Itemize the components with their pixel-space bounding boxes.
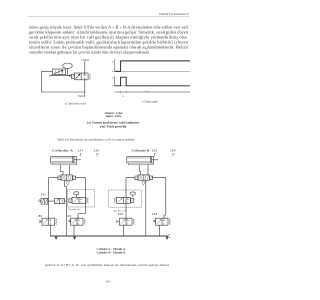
wire output zero reference line bbox=[115, 85, 190, 87]
cylinder A rod bbox=[74, 159, 81, 161]
wire pilot line from flow control to main valve bbox=[50, 75, 71, 77]
svg-text:Cylinder A: Cylinder A bbox=[52, 149, 74, 153]
valve DCV-B parallel arrows right cell bbox=[145, 176, 148, 179]
wire input zero reference line bbox=[115, 70, 190, 72]
cylinder A body bbox=[51, 157, 77, 163]
valve BV spring bbox=[56, 219, 57, 225]
arrow inside left cell bbox=[76, 74, 80, 79]
junction dots on manifold bbox=[66, 236, 67, 237]
wire LV1 to W1 bbox=[47, 200, 50, 202]
valve LV2 body bbox=[71, 218, 84, 225]
valve LV3 body bbox=[120, 218, 133, 225]
valve delay-A pilot left bbox=[69, 199, 72, 203]
valve LV2 roller bbox=[69, 220, 71, 222]
dashed enclosure time delay valve A bbox=[68, 190, 95, 207]
wire supply stub valve A bbox=[65, 180, 67, 186]
cylinder B rod bbox=[152, 159, 158, 161]
supply source triangle 3 bbox=[165, 237, 168, 240]
wire W1b left pilot line of valve B bbox=[126, 178, 135, 219]
valve LV3 spring bbox=[133, 219, 134, 225]
wire W1 left pilot line of valve A bbox=[49, 178, 58, 219]
valve DCV-A parallel arrows right cell bbox=[68, 176, 71, 179]
wire LV3 drain to manifold bbox=[123, 225, 125, 236]
figure 6.11 caption block bbox=[45, 247, 169, 267]
cylinder A base line bbox=[52, 164, 77, 166]
wire reservoir stem bbox=[67, 68, 69, 75]
wire LV2 drain to manifold bbox=[73, 225, 75, 236]
wire LV4 drain to manifold bbox=[159, 225, 161, 236]
wire cylinder B rod-end port to valve B bbox=[147, 165, 148, 175]
cylinder B base line bbox=[128, 164, 153, 166]
wire output signal pulse trace bbox=[115, 77, 190, 86]
svg-text:enine geniş sinyale hazır. Şek: enine geniş sinyale hazır. Şekil 6.9'da … bbox=[29, 26, 189, 30]
valve DCV-B left pilot bbox=[135, 176, 138, 179]
svg-text:Output: Output bbox=[82, 58, 90, 61]
svg-text:t₁: t₁ bbox=[123, 94, 125, 97]
svg-text:LV2: LV2 bbox=[94, 149, 100, 152]
exhaust T inside right cell bbox=[84, 73, 86, 75]
wire input signal trace bbox=[115, 61, 190, 72]
valve BV pushbutton bbox=[39, 220, 42, 223]
valve MV flow-control body bbox=[55, 199, 65, 204]
valve delay-B spring left bbox=[114, 198, 115, 203]
valve DCV-A left pilot bbox=[58, 176, 61, 179]
valve LV4 body bbox=[156, 218, 169, 225]
node LV4 position tick bbox=[173, 154, 174, 157]
wire left port of flow control bbox=[42, 71, 53, 73]
valve delay-A spring right bbox=[87, 198, 88, 203]
svg-text:1: 1 bbox=[112, 61, 114, 64]
wire loop bottom horizontal bbox=[42, 91, 85, 93]
wire loop left vertical bbox=[41, 72, 43, 92]
wire W2 supply line A down to manifold bbox=[66, 187, 68, 237]
valve DCV-A right pilot bbox=[72, 176, 75, 179]
node LV2 position tick bbox=[97, 154, 98, 157]
supply source triangle 2 bbox=[73, 237, 76, 240]
svg-text:LV1: LV1 bbox=[41, 193, 47, 196]
wire cylinder A rod-end port to valve A bbox=[69, 165, 71, 175]
svg-text:Time delay valve: Time delay valve bbox=[68, 209, 81, 211]
pilot box left of main valve bbox=[71, 74, 74, 78]
node input axis bbox=[114, 59, 116, 71]
svg-text:LV3: LV3 bbox=[152, 149, 158, 152]
cylinder B body bbox=[127, 157, 154, 163]
svg-text:LV3: LV3 bbox=[118, 213, 124, 216]
node manifold arrow end bbox=[167, 234, 171, 237]
valve delay-B pilot right bbox=[131, 199, 134, 203]
svg-text:a) Time delay valve: a) Time delay valve bbox=[65, 103, 87, 106]
svg-text:sinyallerin sırası ile çevrim: sinyallerin sırası ile çevrim başlatılma… bbox=[29, 46, 188, 50]
capacitor-like air reservoir (oval) bbox=[63, 63, 73, 68]
valve LV4 spring bbox=[169, 219, 170, 225]
svg-text:b) Time graph: b) Time graph bbox=[142, 101, 158, 104]
svg-text:sinyaller sıradan gelmişse bir: sinyaller sıradan gelmişse bir çevrim iç… bbox=[29, 51, 150, 55]
wire output line top bbox=[84, 61, 86, 73]
svg-text:101: 101 bbox=[106, 280, 112, 284]
cylinder A piston bbox=[72, 157, 74, 163]
svg-text:LV2: LV2 bbox=[66, 215, 72, 218]
valve DCV-A crossed arrows left cell bbox=[62, 176, 65, 179]
op valve U1 3/2 main valve body bbox=[74, 73, 88, 80]
svg-text:(b) Valf profili: (b) Valf profili bbox=[100, 124, 126, 128]
node LV3 position tick bbox=[155, 154, 156, 157]
caption block under figure 6.9 bbox=[57, 111, 139, 141]
svg-text:Cylinder B: Cylinder B bbox=[132, 149, 150, 153]
wire W3b right pilot line of valve B bbox=[153, 178, 166, 219]
wire output line through valve to bottom node bbox=[84, 80, 86, 93]
valve DCV-A exhaust triangle bbox=[66, 182, 69, 186]
svg-text:Şekil 6.9 Pnömatik veri gecikt: Şekil 6.9 Pnömatik veri geciktirme valfi… bbox=[57, 138, 134, 142]
node LV1 position tick bbox=[81, 154, 82, 157]
supply source triangle 1 bbox=[55, 237, 58, 240]
wire cylinder B cap-end port to valve B bbox=[139, 165, 141, 175]
wire cylinder A cap-end port to valve A bbox=[60, 165, 63, 175]
reservoir oval B bbox=[130, 192, 135, 195]
valve LV2 spring bbox=[84, 219, 85, 225]
valve BV start valve body bbox=[42, 218, 55, 225]
svg-text:Cylinder B - Silindir B: Cylinder B - Silindir B bbox=[96, 251, 125, 255]
wire W3 right pilot line of valve A bbox=[76, 178, 86, 219]
wire supply line B down to manifold bbox=[145, 180, 147, 236]
reservoir oval A bbox=[74, 192, 79, 195]
svg-text:t —: t — bbox=[146, 89, 150, 92]
valve LV4 roller bbox=[154, 220, 156, 222]
svg-text:LV1: LV1 bbox=[78, 149, 84, 152]
flow control valve (throttle + check) bbox=[52, 69, 65, 75]
svg-text:Endüstriyel Akışkanlar 6: Endüstriyel Akışkanlar 6 bbox=[158, 12, 189, 16]
spring right of main valve bbox=[89, 74, 90, 79]
valve LV1 limit valve body bbox=[41, 198, 48, 204]
valve DCV-A 5/2 body bbox=[61, 175, 72, 180]
svg-text:Input: Input bbox=[78, 95, 84, 98]
svg-text:Input - Giriş: Input - Giriş bbox=[106, 114, 122, 118]
wire input stub below loop bbox=[84, 92, 86, 97]
wire BV drain to manifold bbox=[50, 225, 52, 236]
valve LV1 roller bbox=[39, 200, 41, 202]
svg-text:sıralı şekillerinin ayrı olan: sıralı şekillerinin ayrı olan bir valf g… bbox=[29, 36, 188, 40]
valve DCV-B 5/2 body bbox=[138, 175, 150, 180]
header rule bbox=[28, 16, 190, 18]
cylinder B piston bbox=[149, 157, 151, 163]
wire supply manifold bbox=[51, 235, 167, 237]
dashed enclosure time delay valve B bbox=[109, 190, 142, 207]
valve DCV-B exhaust triangle bbox=[142, 182, 145, 186]
svg-text:LV4: LV4 bbox=[152, 213, 158, 216]
wire MV right port to W2 bbox=[65, 200, 67, 202]
valve DCV-B right pilot bbox=[150, 176, 153, 179]
svg-text:0: 0 bbox=[112, 70, 114, 73]
valve DCV-B crossed arrows left cell bbox=[139, 176, 142, 179]
wire MV left port to W1 bbox=[49, 200, 55, 202]
svg-text:Şekil 6.11 A+ B+ A- B- veri ge: Şekil 6.11 A+ B+ A- B- veri geciktirme k… bbox=[45, 263, 169, 267]
svg-text:LV4: LV4 bbox=[170, 149, 176, 152]
svg-text:0: 0 bbox=[112, 84, 114, 87]
wire time axis bbox=[115, 91, 190, 93]
svg-text:1: 1 bbox=[112, 77, 114, 80]
valve LV3 pilot left bbox=[117, 220, 120, 223]
valve delay-B body bbox=[117, 197, 131, 203]
valve delay-A body bbox=[72, 197, 86, 203]
node output axis bbox=[114, 76, 116, 86]
svg-text:BV: BV bbox=[39, 215, 43, 218]
